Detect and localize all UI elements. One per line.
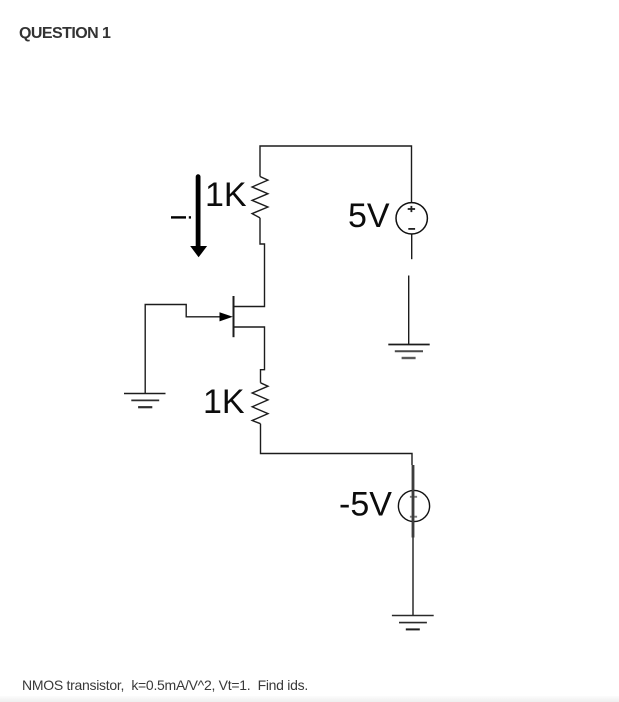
svg-text:1K: 1K: [203, 383, 245, 421]
svg-text:1K: 1K: [205, 176, 247, 214]
svg-text:-5V: -5V: [339, 486, 392, 524]
svg-text:5V: 5V: [348, 197, 390, 235]
